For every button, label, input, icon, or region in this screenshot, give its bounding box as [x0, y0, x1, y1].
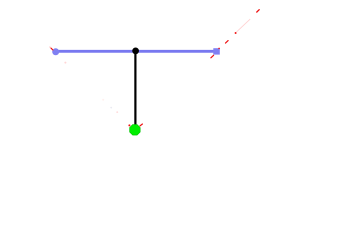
ghost dot (faint trail below-right of node A): [64, 62, 66, 64]
pin marker (red tick lower-left of node B): [211, 55, 214, 58]
ghost dash (red dash far upper-right): [257, 10, 260, 12]
ghost dash (faint pink diagonal segment): [236, 19, 250, 32]
pin marker (red dot upper-left of green terminal): [128, 124, 130, 126]
junction J1 (black dot on wire W1): [132, 48, 139, 55]
wire W1 (horizontal net): [56, 50, 218, 53]
node A (left terminal, round): [52, 48, 59, 55]
pin marker (red tick upper-left of node A): [50, 47, 52, 49]
pin marker (red tick upper-right of node B): [226, 41, 229, 44]
wire W2 (vertical, junction to ground terminal): [134, 51, 136, 125]
ghost dot (faint gray trail): [110, 107, 112, 109]
ghost dash (red dot on diagonal): [235, 32, 237, 34]
terminal T1 (green octagonal node): [130, 125, 141, 136]
pin marker (red pixel at node B corner): [218, 48, 220, 50]
pin marker (red tick upper-right of green terminal): [140, 124, 142, 126]
node B (right terminal, square): [213, 48, 220, 54]
ghost dot (faint pink trail): [116, 111, 118, 113]
ghost dot (ultra faint trail): [102, 99, 104, 101]
